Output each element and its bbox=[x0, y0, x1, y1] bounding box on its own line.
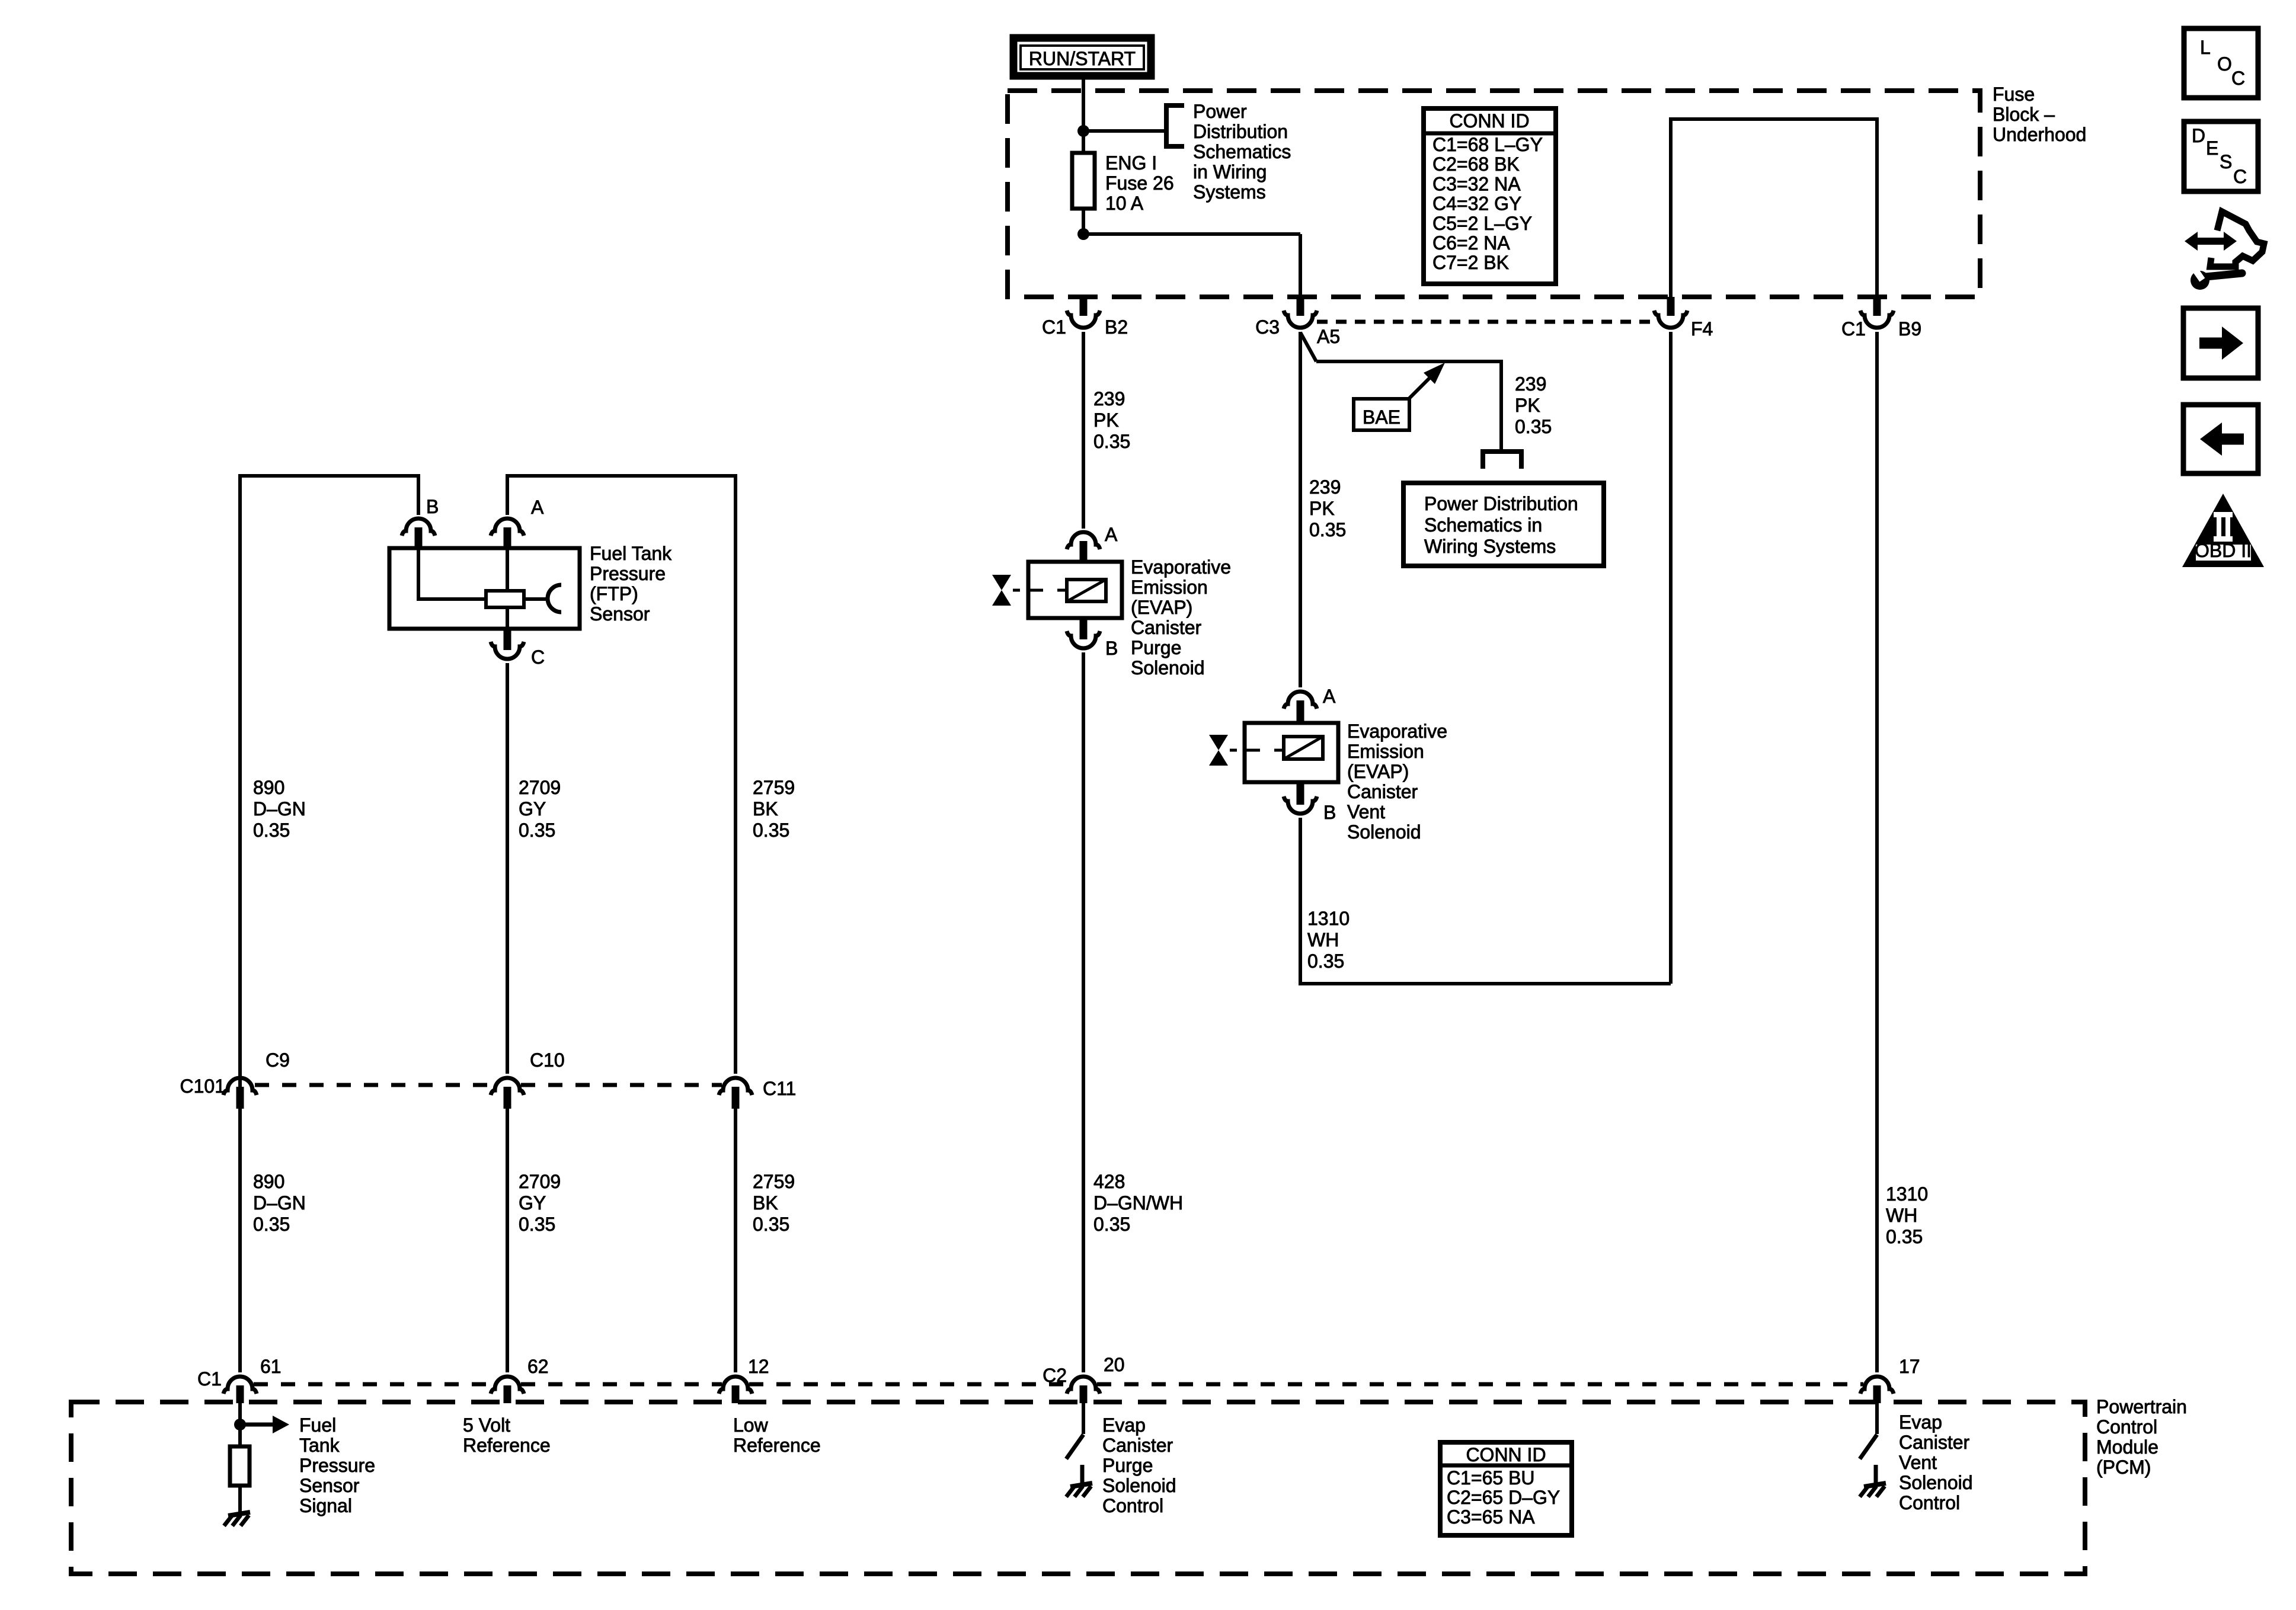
forward arrow icon box bbox=[2183, 308, 2258, 378]
svg-text:Purge: Purge bbox=[1131, 637, 1181, 658]
svg-text:0.35: 0.35 bbox=[1307, 950, 1344, 972]
svg-text:Reference: Reference bbox=[733, 1435, 821, 1456]
svg-text:C: C bbox=[531, 646, 545, 668]
svg-text:Schematics: Schematics bbox=[1193, 141, 1291, 162]
junction node sensor signal bbox=[234, 1419, 246, 1430]
svg-text:Evaporative: Evaporative bbox=[1347, 721, 1447, 742]
connector C1 pin 61 bbox=[223, 1377, 257, 1394]
PCM pull resistor bbox=[230, 1446, 250, 1486]
svg-text:10 A: 10 A bbox=[1105, 193, 1144, 214]
svg-text:239: 239 bbox=[1093, 388, 1125, 409]
svg-text:D–GN: D–GN bbox=[253, 1192, 306, 1214]
svg-text:C1: C1 bbox=[1042, 316, 1066, 338]
ground (purge driver) bbox=[1066, 1483, 1092, 1497]
FTP internal wiring bbox=[418, 548, 486, 599]
fuel tank pressure sensor box bbox=[389, 548, 580, 629]
connector pin stub B2 bbox=[1080, 297, 1088, 316]
svg-text:B: B bbox=[1105, 638, 1118, 659]
PCM connector row dotted line bbox=[254, 1382, 494, 1387]
Power Distribution Schematics in Wiring Systems box bbox=[1403, 483, 1604, 566]
svg-text:(PCM): (PCM) bbox=[2096, 1457, 2151, 1478]
off-page reference bracket (down) bbox=[1483, 452, 1521, 469]
connector C3 A5 bbox=[1284, 311, 1317, 328]
FTP potentiometer element bbox=[486, 591, 524, 607]
svg-text:0.35: 0.35 bbox=[753, 820, 789, 841]
svg-text:0.35: 0.35 bbox=[253, 820, 290, 841]
svg-text:0.35: 0.35 bbox=[1309, 519, 1346, 540]
wire 239 PK to vent solenoid A bbox=[1299, 332, 1302, 687]
svg-text:Block –: Block – bbox=[1993, 104, 2055, 125]
svg-text:Schematics in: Schematics in bbox=[1424, 514, 1542, 536]
CONN ID table (PCM) bbox=[1440, 1442, 1572, 1535]
svg-text:C1=65 BU: C1=65 BU bbox=[1447, 1467, 1535, 1489]
svg-text:12: 12 bbox=[748, 1356, 769, 1377]
connector pin stub A5 bbox=[1297, 297, 1304, 316]
connector B vent solenoid bbox=[1297, 782, 1304, 805]
vent solenoid coil bbox=[1284, 737, 1323, 759]
svg-text:Distribution: Distribution bbox=[1193, 121, 1288, 142]
svg-text:Sensor: Sensor bbox=[590, 603, 650, 625]
svg-text:0.35: 0.35 bbox=[753, 1214, 789, 1235]
svg-text:B: B bbox=[426, 496, 439, 517]
wire resistor to ground bbox=[238, 1486, 242, 1513]
svg-text:C2: C2 bbox=[1043, 1365, 1067, 1386]
switch vent solenoid driver bbox=[1860, 1435, 1877, 1459]
connector C1 B2 bbox=[1067, 311, 1100, 328]
connector C101 C10 bbox=[491, 1078, 524, 1095]
svg-text:C3: C3 bbox=[1255, 316, 1280, 338]
svg-text:GY: GY bbox=[519, 1192, 546, 1214]
svg-text:RUN/START: RUN/START bbox=[1029, 48, 1136, 69]
CONN ID table (fuse block) bbox=[1424, 108, 1556, 284]
connector F4 bbox=[1654, 311, 1687, 328]
svg-text:Emission: Emission bbox=[1347, 741, 1424, 762]
svg-text:0.35: 0.35 bbox=[1093, 431, 1130, 452]
svg-text:Vent: Vent bbox=[1899, 1452, 1937, 1473]
internal fuse block jumper wire F4 to B9 bbox=[1671, 119, 1877, 298]
svg-text:PK: PK bbox=[1515, 395, 1540, 416]
svg-text:OBD II: OBD II bbox=[2195, 540, 2252, 561]
svg-text:CONN ID: CONN ID bbox=[1449, 110, 1529, 132]
connector C FTP sensor bbox=[504, 629, 511, 650]
wire 1310 WH vent B to fuse block F4 bbox=[1300, 818, 1671, 984]
svg-text:PK: PK bbox=[1093, 409, 1119, 431]
purge solenoid coil bbox=[1067, 580, 1106, 601]
svg-text:C10: C10 bbox=[530, 1049, 565, 1071]
back arrow icon box bbox=[2183, 405, 2258, 473]
wire fuse to node bbox=[1082, 209, 1085, 234]
svg-text:0.35: 0.35 bbox=[519, 1214, 555, 1235]
wire purge driver bbox=[1082, 1403, 1085, 1434]
svg-text:Wiring Systems: Wiring Systems bbox=[1424, 536, 1556, 557]
svg-text:C5=2 L–GY: C5=2 L–GY bbox=[1432, 213, 1532, 234]
svg-text:C101: C101 bbox=[180, 1076, 226, 1097]
svg-text:Reference: Reference bbox=[463, 1435, 551, 1456]
svg-text:C11: C11 bbox=[763, 1078, 796, 1099]
svg-text:BAE: BAE bbox=[1363, 406, 1400, 428]
svg-text:Canister: Canister bbox=[1102, 1435, 1173, 1456]
wire 239 PK to purge solenoid A bbox=[1082, 332, 1085, 529]
connector pin stub B9 bbox=[1873, 297, 1881, 316]
svg-text:Canister: Canister bbox=[1347, 781, 1418, 802]
svg-text:Systems: Systems bbox=[1193, 181, 1266, 203]
svg-text:Solenoid: Solenoid bbox=[1102, 1475, 1176, 1496]
svg-text:CONN ID: CONN ID bbox=[1466, 1444, 1546, 1465]
ELEC service icon (arrows + wrench) bbox=[2185, 212, 2264, 267]
wire vent driver bbox=[1875, 1403, 1879, 1434]
svg-text:C7=2 BK: C7=2 BK bbox=[1432, 252, 1509, 273]
wire drop to connector A5 bbox=[1299, 234, 1302, 298]
wire 2759 BK upper run bbox=[507, 476, 736, 1074]
BAE callout box bbox=[1354, 399, 1409, 430]
svg-text:B2: B2 bbox=[1105, 316, 1128, 338]
wire PCM sensor signal input bbox=[238, 1403, 242, 1446]
RUN/START power feed box bbox=[1013, 38, 1151, 76]
svg-text:0.35: 0.35 bbox=[253, 1214, 290, 1235]
svg-text:C4=32 GY: C4=32 GY bbox=[1432, 193, 1521, 215]
DESC icon box bbox=[2184, 121, 2258, 191]
svg-text:Low: Low bbox=[733, 1414, 769, 1436]
svg-text:F4: F4 bbox=[1691, 318, 1713, 340]
svg-text:Sensor: Sensor bbox=[299, 1475, 360, 1496]
svg-text:239: 239 bbox=[1309, 476, 1341, 498]
svg-text:A: A bbox=[1323, 686, 1336, 707]
svg-text:PK: PK bbox=[1309, 498, 1335, 519]
svg-text:A: A bbox=[1105, 524, 1118, 545]
svg-text:Tank: Tank bbox=[299, 1435, 340, 1456]
svg-text:Evaporative: Evaporative bbox=[1131, 556, 1231, 578]
svg-text:Solenoid: Solenoid bbox=[1899, 1472, 1973, 1493]
svg-text:A: A bbox=[531, 497, 544, 518]
svg-text:428: 428 bbox=[1093, 1171, 1125, 1192]
svg-text:890: 890 bbox=[253, 777, 284, 798]
wire drop to off-page symbol bbox=[1499, 360, 1503, 452]
connector C101 C9 bbox=[223, 1078, 257, 1095]
svg-text:GY: GY bbox=[519, 798, 546, 820]
svg-text:Fuse 26: Fuse 26 bbox=[1105, 172, 1174, 194]
svg-text:C2=68 BK: C2=68 BK bbox=[1432, 153, 1520, 175]
junction node below fuse bbox=[1077, 228, 1089, 240]
svg-text:WH: WH bbox=[1886, 1205, 1917, 1226]
svg-text:(FTP): (FTP) bbox=[590, 583, 638, 604]
LOC icon box bbox=[2184, 28, 2258, 98]
signal arrow bbox=[240, 1423, 274, 1427]
svg-text:Fuel Tank: Fuel Tank bbox=[590, 543, 672, 564]
svg-text:BK: BK bbox=[753, 1192, 778, 1214]
svg-text:B: B bbox=[1323, 802, 1336, 823]
wire F4 drop bbox=[1669, 332, 1673, 984]
svg-text:Purge: Purge bbox=[1102, 1455, 1153, 1476]
vent solenoid valve symbol bbox=[1209, 735, 1228, 766]
svg-text:239: 239 bbox=[1515, 373, 1546, 395]
svg-text:Module: Module bbox=[2096, 1436, 2159, 1458]
wire 2709 GY upper run bbox=[506, 663, 509, 1074]
svg-text:62: 62 bbox=[527, 1356, 549, 1377]
svg-text:BK: BK bbox=[753, 798, 778, 820]
svg-text:A5: A5 bbox=[1317, 326, 1340, 347]
svg-text:2759: 2759 bbox=[753, 777, 795, 798]
connector C1 B9 bbox=[1860, 311, 1894, 328]
wire 2759 BK lower run bbox=[734, 1109, 737, 1372]
svg-text:17: 17 bbox=[1899, 1356, 1920, 1377]
wire 428 D-GN/WH purge control bbox=[1082, 652, 1085, 1372]
connector pin 12 bbox=[719, 1377, 752, 1394]
svg-text:2759: 2759 bbox=[753, 1171, 795, 1192]
BAE arrow bbox=[1409, 377, 1430, 398]
svg-text:0.35: 0.35 bbox=[519, 820, 555, 841]
svg-text:O: O bbox=[2217, 53, 2232, 75]
svg-text:Control: Control bbox=[1899, 1492, 1960, 1513]
wire 890 D-GN lower run bbox=[238, 1109, 242, 1372]
svg-text:Solenoid: Solenoid bbox=[1347, 821, 1421, 843]
wire branch to power distribution ref bbox=[1316, 360, 1501, 363]
svg-text:C1: C1 bbox=[1841, 318, 1866, 340]
svg-text:Power Distribution: Power Distribution bbox=[1424, 493, 1578, 514]
junction node run/start branch bbox=[1077, 125, 1089, 137]
svg-text:Control: Control bbox=[2096, 1416, 2157, 1438]
connector B purge solenoid bbox=[1080, 618, 1088, 639]
svg-text:S: S bbox=[2220, 151, 2232, 172]
svg-text:C: C bbox=[2233, 166, 2247, 187]
wire diagonal A5 branch bbox=[1300, 332, 1316, 361]
wrench bbox=[2191, 271, 2209, 290]
wire branch to power distribution reference bbox=[1083, 129, 1166, 133]
svg-text:C1=68 L–GY: C1=68 L–GY bbox=[1432, 134, 1543, 155]
vent solenoid dashed actuator line bbox=[1230, 749, 1237, 752]
svg-text:0.35: 0.35 bbox=[1886, 1226, 1923, 1247]
svg-text:Canister: Canister bbox=[1899, 1432, 1970, 1453]
svg-text:890: 890 bbox=[253, 1171, 284, 1192]
svg-text:C6=2 NA: C6=2 NA bbox=[1432, 232, 1510, 254]
svg-text:2709: 2709 bbox=[519, 1171, 561, 1192]
table header rule bbox=[1424, 132, 1556, 136]
connector B FTP sensor bbox=[402, 518, 435, 536]
svg-text:61: 61 bbox=[260, 1356, 282, 1377]
svg-text:Canister: Canister bbox=[1131, 617, 1202, 638]
svg-text:Power: Power bbox=[1193, 101, 1247, 122]
connector pin stub F4 bbox=[1667, 297, 1675, 316]
svg-text:C3=65 NA: C3=65 NA bbox=[1447, 1506, 1535, 1528]
connector A vent solenoid bbox=[1284, 692, 1317, 709]
svg-text:Evap: Evap bbox=[1102, 1414, 1146, 1436]
svg-text:Underhood: Underhood bbox=[1993, 124, 2086, 145]
purge solenoid dashed actuator line bbox=[1013, 589, 1020, 592]
svg-text:Evap: Evap bbox=[1899, 1411, 1942, 1433]
wire 890 D-GN upper run bbox=[240, 476, 418, 1372]
wire 2709 GY lower run bbox=[506, 1109, 509, 1372]
svg-text:Powertrain: Powertrain bbox=[2096, 1396, 2187, 1417]
off-page reference bracket (power distribution) bbox=[1166, 105, 1184, 146]
svg-text:Pressure: Pressure bbox=[590, 563, 666, 584]
purge solenoid valve symbol bbox=[992, 575, 1011, 606]
svg-text:C3=32 NA: C3=32 NA bbox=[1432, 173, 1521, 194]
svg-text:(EVAP): (EVAP) bbox=[1131, 597, 1192, 618]
svg-text:Emission: Emission bbox=[1131, 577, 1208, 598]
svg-text:Fuel: Fuel bbox=[299, 1414, 336, 1436]
FTP wiper lead bbox=[524, 597, 548, 601]
svg-text:Solenoid: Solenoid bbox=[1131, 657, 1205, 678]
svg-text:1310: 1310 bbox=[1307, 908, 1350, 929]
fuse block underhood dashed box bbox=[1008, 91, 1980, 297]
EVAP canister vent solenoid box bbox=[1245, 723, 1338, 782]
svg-text:ENG I: ENG I bbox=[1105, 152, 1157, 174]
svg-text:Control: Control bbox=[1102, 1495, 1163, 1516]
svg-text:Pressure: Pressure bbox=[299, 1455, 375, 1476]
connector C2 pin 20 bbox=[1067, 1377, 1100, 1394]
svg-text:D–GN/WH: D–GN/WH bbox=[1093, 1192, 1183, 1214]
svg-text:Vent: Vent bbox=[1347, 801, 1385, 822]
svg-text:C: C bbox=[2231, 68, 2245, 89]
svg-text:0.35: 0.35 bbox=[1515, 416, 1552, 437]
connector C101 C11 bbox=[719, 1078, 752, 1095]
wire RUN/START to fuse 26 bbox=[1082, 76, 1085, 155]
svg-text:E: E bbox=[2206, 137, 2218, 159]
svg-text:5 Volt: 5 Volt bbox=[463, 1414, 510, 1436]
ground (vent driver) bbox=[1860, 1483, 1886, 1497]
svg-text:in Wiring: in Wiring bbox=[1193, 161, 1267, 183]
svg-text:(EVAP): (EVAP) bbox=[1347, 761, 1409, 782]
svg-text:L: L bbox=[2200, 37, 2211, 58]
wire node to A5 drop bbox=[1083, 232, 1300, 236]
svg-text:1310: 1310 bbox=[1886, 1183, 1928, 1205]
ground (PCM internal) bbox=[224, 1512, 250, 1526]
switch purge solenoid driver bbox=[1066, 1435, 1083, 1459]
OBD II icon bbox=[2182, 494, 2264, 567]
connector A FTP sensor bbox=[491, 518, 524, 536]
svg-text:Signal: Signal bbox=[299, 1495, 352, 1516]
svg-text:0.35: 0.35 bbox=[1093, 1214, 1130, 1235]
svg-text:B9: B9 bbox=[1898, 318, 1921, 340]
svg-text:Fuse: Fuse bbox=[1993, 84, 2035, 105]
svg-text:D–GN: D–GN bbox=[253, 798, 306, 820]
wire 1310 WH B9 to PCM 17 bbox=[1875, 332, 1879, 1372]
svg-text:D: D bbox=[2192, 125, 2205, 146]
svg-text:C9: C9 bbox=[266, 1049, 290, 1071]
svg-text:2709: 2709 bbox=[519, 777, 561, 798]
EVAP canister purge solenoid box bbox=[1028, 562, 1122, 618]
svg-text:20: 20 bbox=[1104, 1354, 1125, 1375]
powertrain control module dashed box bbox=[71, 1402, 2085, 1574]
connector pin 62 bbox=[491, 1377, 524, 1394]
connector row dotted line A5-F4 bbox=[1317, 320, 1657, 324]
svg-text:C2=65 D–GY: C2=65 D–GY bbox=[1447, 1487, 1560, 1508]
FTP wiper contact arc bbox=[548, 585, 561, 612]
fuse ENG I Fuse 26 10A bbox=[1072, 153, 1095, 209]
svg-text:C1: C1 bbox=[197, 1368, 222, 1390]
connector row C101 dotted line bbox=[255, 1083, 494, 1087]
table header rule bbox=[1440, 1464, 1572, 1468]
connector pin 17 bbox=[1860, 1377, 1894, 1394]
connector A purge solenoid bbox=[1067, 532, 1100, 549]
svg-text:WH: WH bbox=[1307, 929, 1339, 950]
